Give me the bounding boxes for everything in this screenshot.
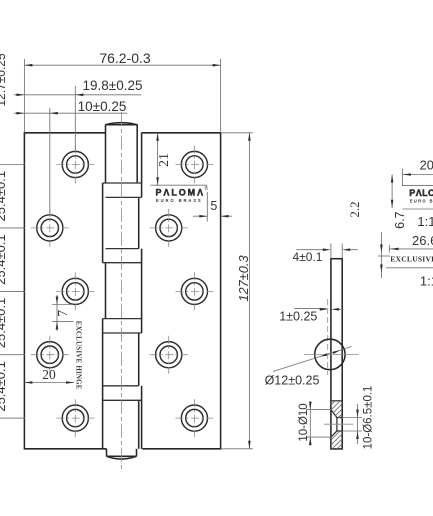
svg-text:PΛLOMΛ: PΛLOMΛ <box>156 187 204 197</box>
svg-text:6.7: 6.7 <box>393 211 407 228</box>
svg-text:EURO BRASS: EURO BRASS <box>410 198 433 203</box>
svg-text:1:1: 1:1 <box>420 273 433 288</box>
svg-text:4±0.1: 4±0.1 <box>293 250 323 264</box>
svg-text:12.7±0.25: 12.7±0.25 <box>0 53 8 107</box>
svg-text:25.4±0.1: 25.4±0.1 <box>0 171 8 222</box>
svg-text:®: ® <box>205 185 209 192</box>
svg-text:Ø12±0.25: Ø12±0.25 <box>265 374 320 388</box>
svg-text:1:1: 1:1 <box>417 214 433 229</box>
svg-text:26.6: 26.6 <box>412 233 433 248</box>
svg-text:20: 20 <box>42 367 56 382</box>
svg-text:76.2-0.3: 76.2-0.3 <box>99 50 151 66</box>
svg-text:EXCLUSIVE HINGE: EXCLUSIVE HINGE <box>74 321 82 390</box>
svg-text:7: 7 <box>55 310 70 317</box>
svg-text:EXCLUSIVE HI: EXCLUSIVE HI <box>390 254 433 263</box>
svg-text:2.2: 2.2 <box>347 201 362 217</box>
svg-text:5: 5 <box>210 199 217 213</box>
svg-text:20: 20 <box>420 158 433 173</box>
svg-text:10-Ø10: 10-Ø10 <box>298 403 310 441</box>
svg-text:127±0.3: 127±0.3 <box>236 255 251 301</box>
svg-text:10±0.25: 10±0.25 <box>78 99 127 114</box>
svg-text:PΛLOMΛ: PΛLOMΛ <box>409 188 433 198</box>
svg-text:21: 21 <box>157 153 172 167</box>
svg-text:25.4±0.1: 25.4±0.1 <box>0 234 8 285</box>
svg-text:EURO BRASS: EURO BRASS <box>156 198 202 203</box>
svg-text:1±0.25: 1±0.25 <box>279 310 317 324</box>
svg-text:19.8±0.25: 19.8±0.25 <box>83 78 143 93</box>
svg-text:25.4±0.1: 25.4±0.1 <box>0 361 8 412</box>
svg-text:25.4±0.1: 25.4±0.1 <box>0 298 8 349</box>
svg-text:10-Ø6.5±0.1: 10-Ø6.5±0.1 <box>362 386 374 450</box>
